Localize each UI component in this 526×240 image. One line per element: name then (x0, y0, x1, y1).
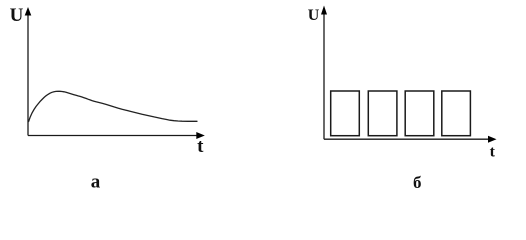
graph b: pulse 2 (368, 91, 397, 136)
graph b: t axis arrowhead (488, 136, 497, 143)
svg-text:t: t (197, 136, 204, 157)
graph b: U axis (vertical) (323, 9, 325, 139)
svg-text:U: U (10, 5, 24, 26)
graph b: U axis arrowhead (321, 6, 327, 15)
graph a: t axis arrowhead (196, 132, 205, 139)
svg-text:t: t (490, 144, 496, 161)
svg-text:б: б (413, 173, 422, 192)
graph a: U axis arrowhead (25, 7, 32, 16)
graph a: U axis (vertical) (27, 10, 29, 136)
graph a: t axis (horizontal) (28, 135, 200, 137)
graph b: pulse 4 (442, 91, 471, 136)
svg-text:а: а (91, 172, 101, 193)
graph b: pulse 1 (331, 91, 360, 136)
svg-text:U: U (308, 7, 320, 24)
graph b: pulse 3 (405, 91, 434, 136)
graph b: t axis (horizontal) (324, 138, 492, 140)
graph a: voltage curve (rise and decay) (29, 91, 197, 121)
